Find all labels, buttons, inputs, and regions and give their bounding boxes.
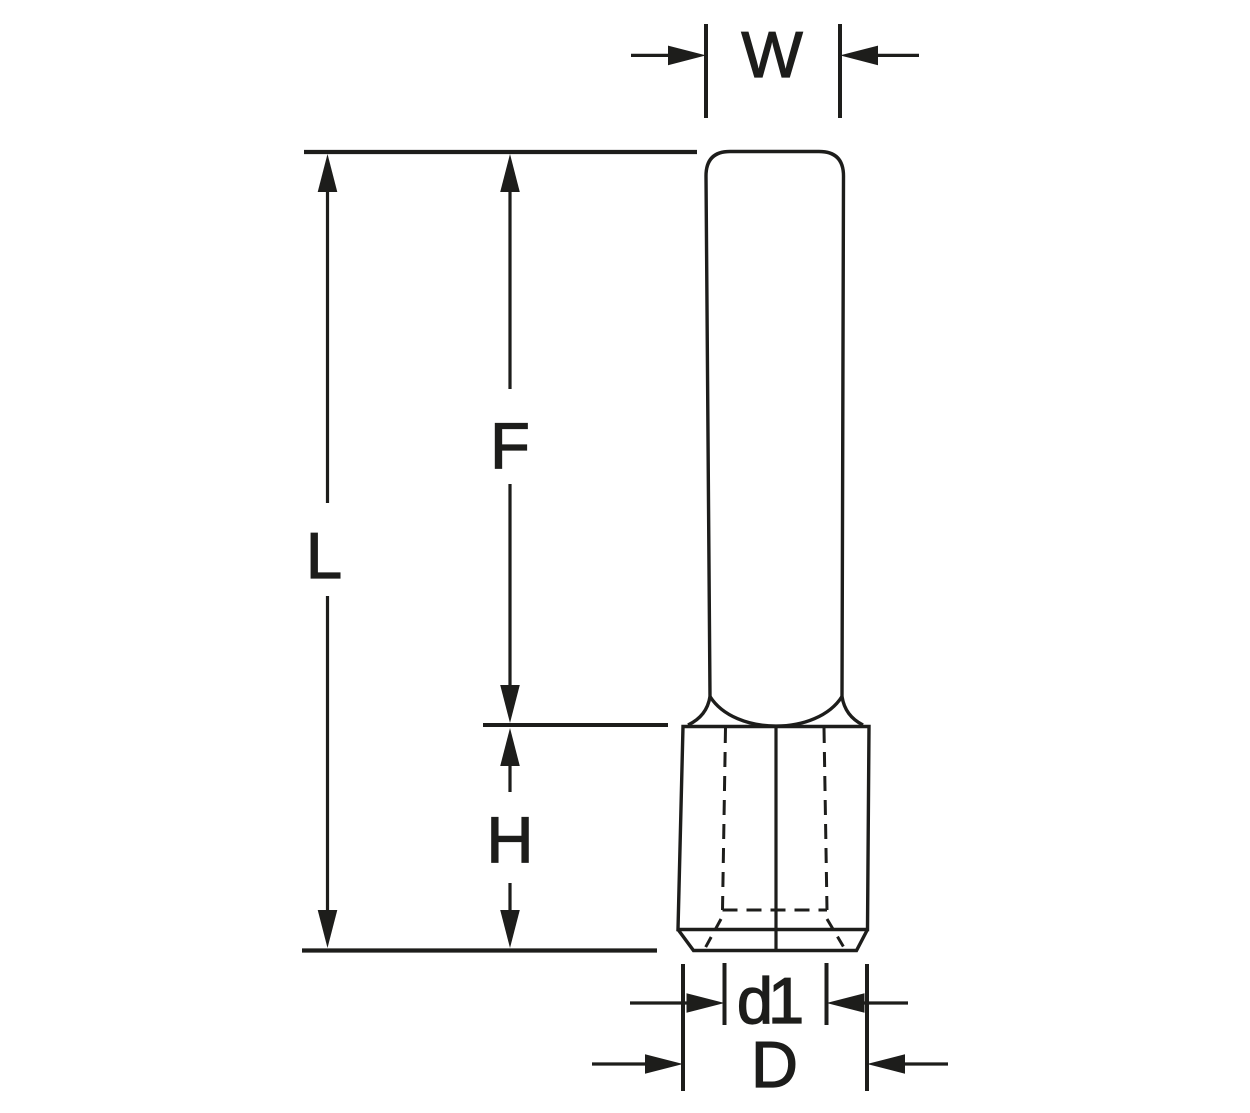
svg-text:L: L [306, 519, 342, 592]
arrow D left [592, 1054, 683, 1074]
extension line D right [865, 964, 869, 1091]
bore dashed left line [723, 728, 726, 910]
dimension L label [306, 519, 342, 592]
extension line d1 right [825, 963, 829, 1025]
bore dashed chamfer left [703, 919, 721, 952]
extension line W right [838, 24, 842, 118]
terminal blade outline [706, 152, 844, 697]
arrow d1 right [827, 993, 909, 1013]
bore dashed chamfer right [827, 919, 846, 951]
bore dashed bottom line [723, 909, 828, 912]
barrel rim arc [710, 697, 842, 727]
arrow W right [840, 46, 919, 66]
dimension line L upper segment with arrow [318, 154, 338, 503]
extension line D left [681, 964, 685, 1091]
blade right fillet [842, 697, 863, 726]
dimension line H upper arrow [500, 728, 520, 792]
dimension line F lower segment with arrow [500, 484, 520, 723]
dimension D label [751, 1028, 798, 1101]
extension line d1 left [723, 963, 727, 1025]
dimension W label [741, 18, 803, 91]
dimension H label [487, 803, 534, 876]
dimension line F upper segment with arrow [500, 154, 520, 389]
svg-text:H: H [487, 803, 534, 876]
dimension line H lower arrow [500, 883, 520, 948]
extension line W left [704, 24, 708, 118]
blade left fillet [688, 697, 710, 726]
dimension F label [490, 409, 530, 482]
barrel seam center line [774, 728, 777, 951]
svg-text:D: D [751, 1028, 798, 1101]
barrel outline [678, 727, 869, 930]
svg-text:W: W [741, 18, 803, 91]
arrow D right [867, 1054, 948, 1074]
extension line middle (blade/barrel junction) [483, 723, 668, 727]
barrel bottom chamfer [678, 930, 868, 951]
svg-text:d1: d1 [737, 964, 801, 1037]
arrow d1 left [630, 993, 725, 1013]
dimension line L lower segment with arrow [318, 596, 338, 948]
dimension d1 label [737, 964, 801, 1037]
svg-text:F: F [490, 409, 530, 482]
arrow W left [631, 46, 706, 66]
bore dashed right line [824, 728, 827, 910]
extension line top (blade tip level) [304, 150, 697, 154]
extension line bottom (barrel bottom level) [302, 948, 657, 952]
